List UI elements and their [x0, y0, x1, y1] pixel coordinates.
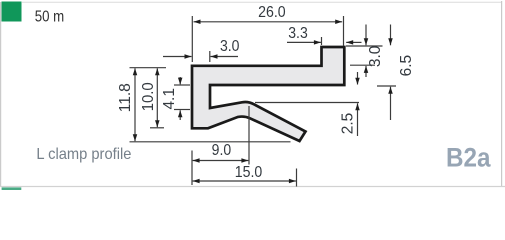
- frame top line: [22, 1, 501, 3]
- dim 3.0 right side: [346, 25, 384, 78]
- svg-text:L clamp profile: L clamp profile: [36, 146, 131, 163]
- dim 3.3: [287, 25, 362, 45]
- svg-text:26.0: 26.0: [258, 4, 286, 21]
- dim 9.0: [192, 106, 249, 185]
- svg-text:11.8: 11.8: [117, 83, 134, 112]
- svg-text:50 m: 50 m: [35, 9, 64, 26]
- svg-text:2.5: 2.5: [339, 113, 356, 135]
- dim 11.8: [117, 68, 291, 142]
- svg-text:6.5: 6.5: [398, 55, 415, 77]
- svg-text:4.1: 4.1: [161, 88, 178, 110]
- svg-text:3.0: 3.0: [220, 38, 240, 55]
- green legend square: [2, 2, 22, 22]
- frame bottom line: [0, 186, 505, 188]
- svg-text:10.0: 10.0: [140, 82, 157, 111]
- L clamp profile body: [192, 47, 344, 141]
- svg-text:15.0: 15.0: [235, 164, 263, 181]
- dim 3.0 top-left: [163, 38, 240, 62]
- dim 6.5: [377, 25, 415, 121]
- dim 2.5: [255, 72, 360, 136]
- dim 10.0: [140, 68, 164, 128]
- dim 26.0: [192, 4, 343, 62]
- svg-text:9.0: 9.0: [212, 142, 232, 159]
- svg-text:3.0: 3.0: [367, 46, 384, 68]
- frame left border: [0, 2, 2, 186]
- svg-text:B2a: B2a: [446, 143, 491, 173]
- dim 15.0: [193, 164, 297, 187]
- green square next row (cut off): [2, 187, 22, 190]
- svg-text:3.3: 3.3: [288, 25, 308, 42]
- frame right border: [501, 1, 503, 186]
- dim 4.1: [161, 77, 190, 120]
